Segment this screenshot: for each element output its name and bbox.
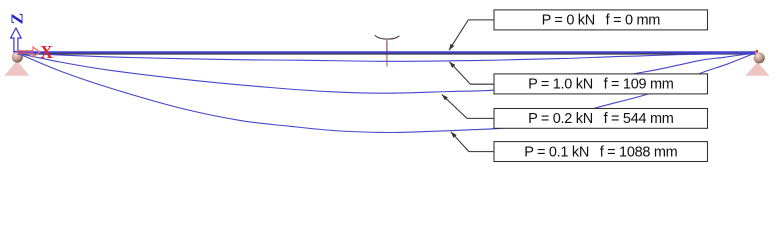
leader arrowhead P = 0 (449, 44, 454, 51)
svg-text:X: X (40, 42, 53, 62)
callout box P = 0 (494, 10, 708, 30)
leader arrowhead P = 0.2 (442, 95, 448, 101)
leader line P = 0.1 (451, 132, 494, 152)
svg-text:Z: Z (7, 13, 26, 24)
load arc at midspan (375, 35, 400, 39)
axis Z arrow (hollow, blue) (11, 28, 22, 52)
callout box P = 0.1 (494, 142, 708, 162)
callout box P = 1.0 (494, 74, 708, 94)
member line dark core (18, 53, 756, 55)
deflection curve P = 0.1 kN (f = 1088 mm) (18, 53, 756, 133)
leader arrowhead P = 0.1 (451, 132, 457, 138)
support ball right (754, 52, 765, 63)
deflection curve P = 0.2 kN (f = 544 mm) (18, 53, 756, 93)
load stem at midspan (386, 40, 388, 52)
support triangle left (4, 61, 29, 76)
svg-text:P = 0.1 kN f = 1088 mm: P = 0.1 kN f = 1088 mm (524, 145, 677, 161)
svg-text:P = 0 kN f = 0 mm: P = 0 kN f = 0 mm (542, 13, 661, 29)
node dot left (18, 50, 20, 52)
support triangle right (745, 62, 769, 76)
svg-text:P = 1.0 kN f = 109 mm: P = 1.0 kN f = 109 mm (528, 77, 674, 93)
support ball left (12, 51, 23, 62)
svg-text:P = 0.2 kN f = 544 mm: P = 0.2 kN f = 544 mm (528, 111, 674, 127)
callout box P = 0.2 (494, 109, 708, 129)
leader line P = 0 (449, 20, 494, 50)
member line blue (undeformed cable, P = 0 kN) (18, 51, 756, 53)
leader line P = 1.0 (449, 62, 494, 84)
leader arrowhead P = 1.0 (449, 62, 455, 68)
leader line P = 0.2 (442, 95, 494, 119)
axis Z shaft to origin (13, 52, 15, 54)
axis X arrow (hollow, red) (18, 47, 40, 57)
deflection curve P = 1.0 kN (f = 109 mm) (18, 53, 756, 61)
node dot right (756, 50, 759, 53)
